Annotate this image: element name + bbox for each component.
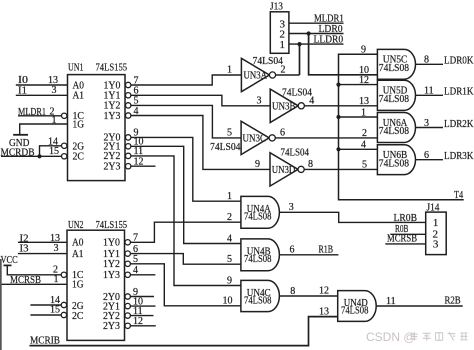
svg-text:1: 1: [361, 107, 366, 118]
wire UN4A output to J14 pin 1 LR0B: [279, 212, 425, 222]
wire UN1 2Y3 stub: [131, 165, 156, 167]
svg-text:6: 6: [280, 127, 285, 138]
AND gate UN5C 74LS08: [377, 49, 415, 79]
svg-text:UN3B: UN3B: [272, 102, 296, 113]
svg-text:R2B: R2B: [445, 296, 461, 307]
svg-text:3: 3: [433, 238, 439, 250]
svg-text:74LS08: 74LS08: [379, 63, 409, 74]
connector J13: [270, 12, 289, 54]
svg-text:1: 1: [280, 39, 286, 51]
wire UN1 2Y0 to UN4A pin 1: [131, 137, 241, 201]
wire T4 branch to UN5D pin 12: [339, 84, 378, 86]
UN1 2Y3 inverting bubble: [126, 164, 131, 169]
UN2 2G inverting bubble: [61, 302, 66, 307]
AND gate UN5D 74LS08: [377, 80, 415, 110]
svg-text:R1B: R1B: [319, 244, 334, 255]
junction LDR0 node: [307, 31, 311, 35]
wire UN3D output to UN6B pin 5: [304, 168, 377, 170]
UN1 1Y3 inverting bubble: [126, 113, 131, 118]
wire UN1 2Y2 to UN4C pin 9: [131, 156, 241, 286]
UN2 1Y3 inverting bubble: [125, 272, 130, 277]
inverter UN3B 74LS04: [270, 89, 298, 122]
ground symbol GND: [13, 134, 28, 136]
wire J13 pin 1 LLDR0: [289, 43, 344, 45]
svg-text:4: 4: [227, 233, 232, 244]
UN1 1C inverting bubble: [61, 113, 66, 118]
svg-text:1: 1: [227, 191, 232, 202]
wire UN2 1Y0 to UN4A pin 2: [130, 222, 241, 242]
wire VCC to UN2 1C: [7, 265, 61, 274]
svg-text:A0: A0: [72, 238, 84, 249]
svg-text:1Y3: 1Y3: [103, 270, 120, 281]
UN2 1Y2 inverting bubble: [125, 261, 130, 266]
svg-text:4: 4: [309, 95, 314, 106]
svg-text:9: 9: [227, 275, 232, 286]
svg-text:LDR0K: LDR0K: [444, 56, 474, 67]
svg-text:1G: 1G: [73, 119, 85, 130]
wire UN2 2Y2 stub: [130, 315, 153, 317]
wire LLDR0 down to UN3A output: [299, 44, 301, 75]
wire I3 to UN2 A1: [18, 253, 67, 255]
svg-text:74LS04: 74LS04: [282, 87, 313, 98]
svg-text:74LS155: 74LS155: [96, 62, 128, 74]
wire MCRSB to J14 pin 3: [385, 243, 425, 245]
svg-text:3: 3: [424, 118, 429, 129]
UN2 2C inverting bubble: [61, 312, 66, 317]
wire UN2 2Y1 stub: [130, 305, 155, 307]
svg-text:1: 1: [433, 217, 439, 229]
svg-text:74LS08: 74LS08: [379, 126, 409, 137]
wire UN3B output to UN5D pin 13: [305, 105, 378, 107]
svg-text:VCC: VCC: [1, 255, 18, 266]
watermark glyph: [436, 333, 443, 341]
wire UN1 1Y3 to UN3D input: [131, 116, 270, 170]
UN2 2Y1 inverting bubble: [125, 303, 130, 308]
wire T4 branch to UN6B pin 4: [339, 148, 378, 150]
wire UN2 1Y2 to UN4C pin 10: [130, 264, 241, 306]
wire UN3A output to LLDR0: [276, 74, 300, 76]
svg-text:T4: T4: [454, 190, 464, 201]
svg-text:UN3A: UN3A: [244, 71, 268, 82]
svg-text:J14: J14: [427, 202, 440, 213]
svg-text:UN3D: UN3D: [272, 165, 296, 176]
svg-text:12: 12: [359, 75, 369, 86]
svg-text:1Y2: 1Y2: [103, 259, 120, 270]
junction T4 to UN6A pin 1: [336, 115, 340, 119]
wire MCRDB branch to UN1 2G: [40, 146, 62, 157]
svg-text:3: 3: [257, 95, 262, 106]
junction T4 to UN5D pin 12: [336, 83, 340, 87]
svg-text:15: 15: [49, 146, 59, 157]
svg-text:1: 1: [54, 274, 59, 285]
wire UN2 2Y3 stub: [130, 325, 155, 327]
UN2 1Y1 inverting bubble: [125, 251, 130, 256]
svg-text:74LS08: 74LS08: [244, 254, 272, 265]
svg-text:3: 3: [54, 243, 59, 254]
wire UN2 1Y3 stub: [130, 274, 155, 276]
svg-text:A1: A1: [72, 249, 84, 260]
UN2 2Y3 inverting bubble: [125, 323, 130, 328]
junction T4 to UN6B pin 4: [336, 147, 340, 151]
svg-text:LLDR0: LLDR0: [314, 34, 344, 45]
svg-text:LDR3K: LDR3K: [444, 151, 474, 162]
svg-text:LDR2K: LDR2K: [444, 119, 474, 130]
svg-text:11: 11: [424, 86, 434, 97]
UN1 2C inverting bubble: [61, 154, 66, 159]
svg-text:3: 3: [52, 85, 57, 96]
wire UN4B output R1B: [279, 254, 338, 256]
svg-text:74LS04: 74LS04: [210, 142, 241, 153]
wire UN1 1Y2 to UN3C input: [131, 105, 241, 137]
junction LLDR0 node: [297, 42, 301, 46]
svg-text:8: 8: [290, 286, 295, 297]
inverter UN3D 74LS04: [270, 153, 298, 186]
watermark glyph: [460, 333, 467, 340]
svg-text:J13: J13: [270, 1, 283, 12]
svg-text:2: 2: [281, 65, 286, 76]
AND gate UN6A 74LS08: [377, 113, 415, 143]
svg-text:1Y3: 1Y3: [104, 111, 121, 122]
svg-text:74LS08: 74LS08: [379, 94, 409, 105]
inverter UN3C 74LS04: [241, 121, 269, 154]
AND gate UN4C 74LS08: [241, 280, 280, 311]
svg-text:UN3C: UN3C: [243, 134, 267, 145]
connector J14: [426, 212, 447, 255]
wire UN6A output: [416, 127, 444, 129]
wire UN5D output: [416, 94, 444, 96]
UN1 1Y2 inverting bubble: [126, 103, 131, 108]
wire UN4D output R2B: [376, 305, 463, 307]
svg-text:74LS04: 74LS04: [281, 148, 310, 159]
svg-text:10: 10: [223, 296, 233, 307]
wire I2 to UN2 A0: [18, 241, 67, 243]
svg-text:2: 2: [227, 212, 232, 223]
wire UN2 1Y1 to UN4B pin 5: [130, 254, 241, 265]
svg-text:5: 5: [362, 160, 367, 171]
svg-text:6: 6: [424, 150, 429, 161]
svg-text:2C: 2C: [73, 152, 85, 163]
junction MCRDB node: [37, 154, 41, 158]
svg-text:13: 13: [359, 96, 369, 107]
svg-text:12: 12: [319, 286, 329, 297]
svg-text:15: 15: [50, 305, 60, 316]
svg-text:11: 11: [386, 296, 396, 307]
svg-text:74LS155: 74LS155: [96, 219, 128, 231]
svg-text:2Y3: 2Y3: [103, 321, 120, 332]
svg-text:1Y0: 1Y0: [103, 238, 120, 249]
wire T4 bus vertical: [339, 54, 464, 200]
AND gate UN4D 74LS08: [338, 291, 377, 322]
UN1 2Y2 inverting bubble: [126, 153, 131, 158]
svg-text:8: 8: [308, 159, 313, 170]
wire UN1 2Y1 to UN4B pin 4: [131, 146, 241, 243]
wire MCRIB to UN4D pin 13: [30, 317, 338, 346]
wire UN1 1Y1 to UN3B input: [131, 95, 270, 106]
wire MCRDB to UN1 2C: [1, 155, 62, 157]
svg-text:CSDN @: CSDN @: [366, 330, 416, 344]
svg-text:5: 5: [227, 127, 232, 138]
wire MCRSB to UN2 1G: [0, 283, 67, 285]
svg-text:LR0B: LR0B: [394, 213, 418, 224]
svg-text:1G: 1G: [72, 280, 84, 291]
svg-text:UN2: UN2: [68, 219, 84, 231]
wire UN3C output to UN6A pin 2: [275, 137, 377, 139]
svg-text:A1: A1: [73, 91, 85, 102]
svg-text:74LS08: 74LS08: [379, 158, 409, 169]
svg-text:9: 9: [255, 159, 260, 170]
UN2 1C inverting bubble: [61, 272, 66, 277]
svg-text:74LS08: 74LS08: [244, 296, 272, 307]
wire stub to UN2 2G: [30, 304, 61, 306]
UN2 1Y0 inverting bubble: [125, 240, 130, 245]
scan artifact left edge: [0, 259, 2, 350]
wire LDR0 down to UN5C pin 10: [309, 34, 378, 75]
svg-text:74LS08: 74LS08: [341, 306, 369, 317]
AND gate UN4B 74LS08: [241, 239, 280, 271]
wire UN4C output to UN4D pin 12: [279, 295, 337, 297]
UN1 2G inverting bubble: [61, 143, 66, 148]
UN2 2Y0 inverting bubble: [125, 294, 130, 299]
watermark glyph: [411, 332, 418, 341]
wire UN1 1Y0 to UN3A input: [131, 75, 242, 85]
svg-text:6: 6: [290, 244, 295, 255]
svg-text:4: 4: [361, 140, 366, 151]
svg-text:LDR1K: LDR1K: [444, 87, 474, 98]
svg-text:3: 3: [289, 202, 294, 213]
UN2 2Y2 inverting bubble: [125, 313, 130, 318]
IC UN2 74LS155 demultiplexer: [67, 230, 125, 340]
wire R0B to J14 pin 2: [390, 233, 425, 235]
svg-text:1: 1: [227, 65, 232, 76]
svg-text:UN1: UN1: [68, 62, 84, 74]
wire T4 branch to UN6A pin 1: [339, 116, 378, 118]
svg-text:74LS08: 74LS08: [244, 212, 272, 223]
svg-text:9: 9: [361, 45, 366, 56]
UN1 1Y1 inverting bubble: [126, 93, 131, 98]
svg-text:2C: 2C: [72, 311, 84, 322]
watermark glyph: [423, 333, 431, 340]
wire stub to UN2 2C: [30, 314, 61, 316]
wire J13 pin 3 MLDR1: [289, 22, 344, 24]
wire I1 to UN1 A1: [16, 94, 68, 96]
UN1 2Y1 inverting bubble: [126, 144, 131, 149]
UN1 1Y0 inverting bubble: [126, 82, 131, 87]
wire UN5C output: [416, 63, 444, 65]
wire I0 to UN1 A0: [16, 84, 68, 86]
wire MLDR1 to UN1 1C: [18, 115, 62, 117]
wire UN6B output: [416, 159, 444, 161]
wire UN2 2Y0 stub: [130, 296, 154, 298]
UN1 2Y0 inverting bubble: [126, 135, 131, 140]
wire UN1 1G to ground: [20, 124, 68, 135]
AND gate UN4A 74LS08: [241, 196, 280, 228]
AND gate UN6B 74LS08: [377, 145, 415, 175]
svg-text:MCRSB: MCRSB: [387, 234, 417, 245]
svg-text:5: 5: [227, 254, 232, 265]
IC UN1 74LS155 demultiplexer: [68, 75, 126, 181]
svg-text:74LS04: 74LS04: [253, 56, 284, 67]
inverter UN3A 74LS04: [241, 58, 269, 91]
watermark glyph: [448, 332, 456, 341]
svg-text:LDR0: LDR0: [319, 24, 343, 35]
svg-text:2Y3: 2Y3: [104, 162, 121, 173]
wire J13 pin 2 LDR0: [289, 33, 344, 35]
svg-text:2: 2: [362, 128, 367, 139]
svg-text:8: 8: [424, 55, 429, 66]
